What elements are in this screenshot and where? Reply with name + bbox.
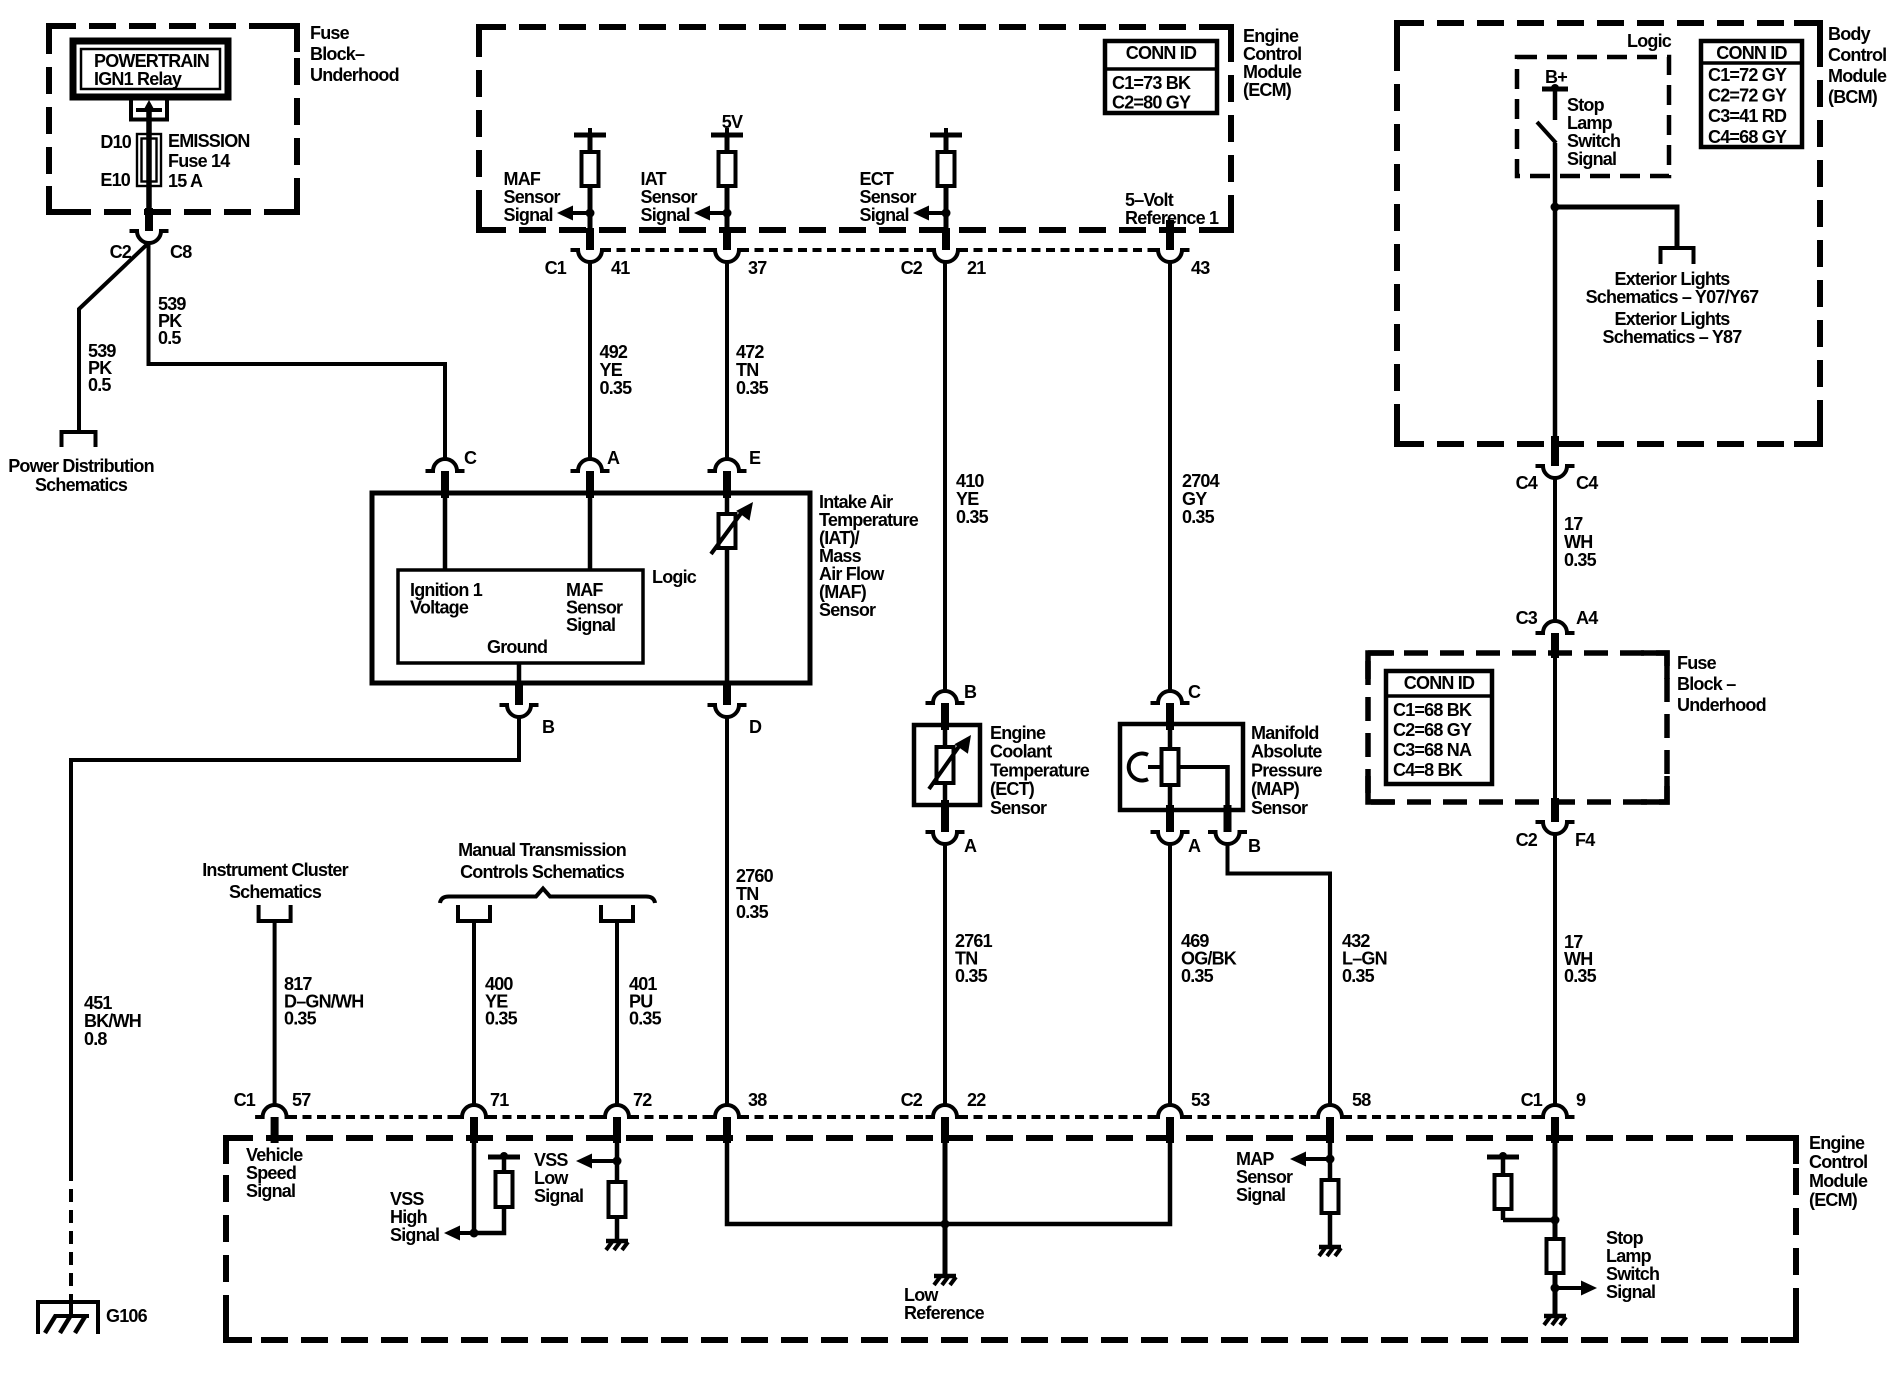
connector C1 pin 9 [1536,1105,1575,1117]
wire 817 D-GN/WH 0.35 [273,921,277,1105]
svg-text:High: High [390,1207,427,1227]
svg-text:E: E [749,448,761,468]
arrow VSS low signal [590,1159,617,1163]
svg-text:0.35: 0.35 [1564,966,1597,986]
svg-text:YE: YE [600,360,623,380]
terminal bar stop lamp pull-up [1487,1155,1519,1160]
svg-text:38: 38 [748,1090,767,1110]
ground G106 symbol [38,1302,98,1334]
svg-text:(MAP): (MAP) [1251,779,1300,799]
wire 432 L-GN 0.35 (B to 58) [1228,844,1331,1105]
arrow IAT sensor signal [708,211,727,215]
svg-text:IAT: IAT [641,169,667,189]
svg-text:Schematics: Schematics [229,882,322,902]
svg-text:Switch: Switch [1606,1264,1659,1284]
wire 492 YE 0.35 [588,262,592,459]
fuse F14 symbol [137,134,161,186]
svg-text:0.8: 0.8 [84,1029,107,1049]
svg-text:Control: Control [1828,45,1886,65]
svg-text:72: 72 [633,1090,652,1110]
MAP signal wire inside box [1168,724,1173,749]
svg-text:TN: TN [736,360,758,380]
svg-text:Temperature: Temperature [819,510,919,530]
pull-up resistor MAF [588,135,593,152]
wire 2704 GY 0.35 [1168,262,1172,691]
wire 451 BK/WH 0.8 (B to G106) [71,717,519,1168]
svg-text:Engine: Engine [1243,26,1299,46]
svg-text:Schematics: Schematics [35,475,128,495]
connector pin C (MAF sensor) [426,459,465,471]
svg-text:A4: A4 [1576,608,1598,628]
connector pin 72 [598,1105,637,1117]
svg-text:C2: C2 [901,1090,923,1110]
svg-text:451: 451 [84,993,112,1013]
wire 17 WH 0.35 (lower) [1553,834,1557,1105]
CONN ID table (fuse block) [1386,671,1492,784]
svg-text:Signal: Signal [1236,1185,1285,1205]
svg-text:Block –: Block – [1677,674,1736,694]
resistor VSS low [609,1182,626,1217]
svg-text:Low: Low [534,1168,569,1188]
svg-text:Fuse: Fuse [310,23,350,43]
off-page bracket manual transmission (left) [458,905,490,921]
junction node stop lamp signal [1551,1284,1560,1293]
svg-text:Logic: Logic [1627,31,1672,51]
svg-text:Underhood: Underhood [310,65,399,85]
svg-text:A: A [607,448,620,468]
variable resistor ECT (thermistor) [937,747,954,783]
svg-text:Module: Module [1828,66,1887,86]
svg-text:C: C [464,448,477,468]
stop lamp pull-up branch [1503,1218,1555,1223]
svg-text:Block–: Block– [310,44,365,64]
svg-text:Signal: Signal [1567,149,1616,169]
junction node IAT signal [723,209,732,218]
svg-text:C4: C4 [1576,473,1598,493]
svg-text:Vehicle: Vehicle [246,1145,303,1165]
arrow stop lamp switch signal [1555,1286,1583,1290]
svg-text:57: 57 [292,1090,311,1110]
svg-text:B: B [542,717,555,737]
wire 400 YE 0.35 [472,921,476,1105]
svg-text:Pressure: Pressure [1251,760,1322,780]
stub below fuse box [145,208,153,231]
svg-text:0.35: 0.35 [736,902,769,922]
junction node MAF signal [586,209,595,218]
svg-text:Signal: Signal [641,205,690,225]
svg-text:C2: C2 [1516,830,1538,850]
svg-text:0.35: 0.35 [955,966,988,986]
svg-text:22: 22 [967,1090,986,1110]
off-page bracket power distribution [62,432,96,447]
stub at ECM top box edge x=727 [723,228,731,250]
svg-text:C4: C4 [1516,473,1538,493]
svg-text:A: A [1188,836,1201,856]
engine control module (bottom) dashed box [226,1138,1796,1340]
svg-text:Temperature: Temperature [990,760,1090,780]
svg-text:Switch: Switch [1567,131,1620,151]
svg-text:Low: Low [904,1285,939,1305]
body control module dashed box [1397,23,1820,444]
svg-text:0.35: 0.35 [956,507,989,527]
connector C1 pin 41 [571,250,610,262]
connector pin 71 [455,1105,494,1117]
svg-text:0.35: 0.35 [600,378,633,398]
svg-text:MAP: MAP [1236,1149,1274,1169]
arrow MAF sensor signal [571,211,590,215]
svg-text:Exterior Lights: Exterior Lights [1614,309,1730,329]
CONN ID table (ECM top) [1105,41,1217,113]
svg-text:Reference: Reference [904,1303,985,1323]
connector pin A (ECT) [926,832,965,844]
relay K: POWERTRAIN IGN1 Relay box [73,41,228,97]
stub pin B (MAP) [1224,805,1232,832]
connector C2/C8 arc [130,231,169,243]
variable resistor IAT (thermistor) [719,514,736,548]
junction node low reference [941,1220,950,1229]
svg-text:C2=68 GY: C2=68 GY [1393,720,1472,740]
svg-text:C1: C1 [545,258,567,278]
supply T-bar above ECT pull-up [930,133,962,138]
VSS high pull-up branch [474,1207,504,1233]
svg-text:Voltage: Voltage [410,598,469,618]
off-page bracket manual transmission (right) [601,905,633,921]
MAP transducer symbol [1129,754,1148,781]
svg-text:Ground: Ground [487,637,547,657]
svg-text:Control: Control [1243,44,1301,64]
svg-text:71: 71 [490,1090,509,1110]
svg-text:Fuse 14: Fuse 14 [168,151,230,171]
wire VSS low inside ECM [615,1143,620,1182]
ground low reference [934,1274,956,1279]
svg-text:C1: C1 [1521,1090,1543,1110]
svg-text:0.5: 0.5 [88,375,111,395]
svg-text:Manual Transmission: Manual Transmission [458,840,626,860]
svg-text:G106: G106 [106,1306,148,1326]
svg-text:Engine: Engine [990,723,1046,743]
stub pin B [515,683,523,705]
pull-up resistor IAT [725,135,730,152]
connector pin 58 [1311,1105,1350,1117]
svg-text:Power Distribution: Power Distribution [8,456,154,476]
svg-text:0.35: 0.35 [1181,966,1214,986]
arrow VSS high signal [458,1231,474,1235]
svg-text:0.35: 0.35 [1182,507,1215,527]
junction node MAP signal [1326,1155,1335,1164]
ECT sensor box [914,725,980,805]
inner logic dashed box (BCM) [1517,57,1669,176]
connector C2/F4 [1536,822,1575,834]
resistor stop lamp pull-up [1495,1175,1512,1209]
stub BCM bottom C4 [1551,436,1559,466]
svg-text:Instrument Cluster: Instrument Cluster [202,860,348,880]
relay output pin cup symbol [131,101,167,120]
thermistor ECT wires [943,725,948,749]
ground VSS low [606,1239,628,1244]
wire 2761 TN 0.35 [943,844,947,1105]
svg-text:0.35: 0.35 [629,1009,662,1029]
svg-text:Sensor: Sensor [860,187,917,207]
svg-text:0.35: 0.35 [1342,966,1375,986]
pull-up resistor ECT [944,135,949,152]
svg-text:Manifold: Manifold [1251,723,1319,743]
svg-text:Sensor: Sensor [1251,798,1308,818]
junction node ECT signal [942,209,951,218]
connector pin A (MAP) [1151,832,1190,844]
svg-text:Signal: Signal [566,615,615,635]
connector pin 53 [1151,1105,1190,1117]
connector C2 pin 22 [926,1105,965,1117]
svg-text:Controls Schematics: Controls Schematics [460,862,625,882]
MAP sensor box [1120,724,1243,810]
svg-text:Schematics – Y87: Schematics – Y87 [1603,327,1743,347]
wire 401 PU 0.35 [615,921,619,1105]
stop lamp switch SW [1537,122,1556,143]
svg-text:Coolant: Coolant [990,742,1052,762]
svg-text:C3: C3 [1516,608,1538,628]
svg-text:B: B [1248,836,1261,856]
connector C2 pin 21 [927,250,966,262]
svg-text:POWERTRAIN: POWERTRAIN [94,51,209,71]
svg-text:Logic: Logic [652,567,697,587]
wire stop lamp inside ECM [1553,1143,1558,1316]
svg-text:Stop: Stop [1567,95,1605,115]
svg-text:58: 58 [1352,1090,1371,1110]
wire 2760 TN 0.35 (D to 38) [725,717,729,1105]
inner logic box (MAF sensor) [398,570,643,663]
wire 539 PK 0.5 to MAF sensor pin C [149,243,446,459]
svg-text:C8: C8 [170,242,192,262]
resistor stop lamp series [1547,1239,1564,1273]
svg-text:Sensor: Sensor [1236,1167,1293,1187]
dotted connector line (bottom row) [288,1115,462,1119]
stub at ECM top box edge x=946 [942,228,950,250]
svg-text:F4: F4 [1575,830,1595,850]
svg-text:0.35: 0.35 [485,1009,518,1029]
svg-text:IGN1 Relay: IGN1 Relay [94,69,182,89]
svg-text:53: 53 [1191,1090,1210,1110]
svg-text:Exterior Lights: Exterior Lights [1614,269,1730,289]
svg-text:Signal: Signal [246,1181,295,1201]
svg-text:Speed: Speed [246,1163,296,1183]
svg-text:472: 472 [736,342,764,362]
wire ground pin B [517,663,522,683]
svg-text:C2: C2 [901,258,923,278]
svg-text:EMISSION: EMISSION [168,131,250,151]
svg-text:C2=80 GY: C2=80 GY [1112,93,1191,113]
svg-text:410: 410 [956,471,984,491]
svg-text:37: 37 [748,258,767,278]
junction node stop lamp pull-up [1551,1216,1560,1225]
junction node exterior lights [1551,203,1560,212]
svg-text:0.35: 0.35 [284,1009,317,1029]
svg-text:C1=68 BK: C1=68 BK [1393,700,1472,720]
svg-text:TN: TN [736,884,758,904]
svg-text:C4=8 BK: C4=8 BK [1393,760,1463,780]
connector pin B (MAF sensor) [500,705,539,717]
svg-text:0.35: 0.35 [736,378,769,398]
svg-text:BK/WH: BK/WH [84,1011,141,1031]
svg-text:2704: 2704 [1182,471,1220,491]
svg-text:5–Volt: 5–Volt [1125,190,1174,210]
arrow MAP sensor signal [1304,1157,1330,1161]
svg-text:Signal: Signal [860,205,909,225]
svg-text:YE: YE [956,489,979,509]
wire VSS high inside ECM [472,1143,477,1233]
svg-text:5V: 5V [722,112,743,132]
arrow ECT sensor signal [927,211,946,215]
svg-text:Lamp: Lamp [1567,113,1613,133]
connector pin D (MAF sensor) [708,705,747,717]
svg-text:C3=68 NA: C3=68 NA [1393,740,1472,760]
wire switch to BCM bottom [1553,143,1558,444]
svg-text:21: 21 [967,258,986,278]
junction node VSS low [613,1157,622,1166]
connector pin B (MAP) [1208,832,1247,844]
wire MAP resistor to ground [1328,1213,1333,1246]
svg-text:Control: Control [1809,1152,1867,1172]
ground MAP [1319,1245,1341,1250]
svg-text:(BCM): (BCM) [1828,87,1878,107]
junction node VSS high [470,1229,479,1238]
svg-text:C2: C2 [110,242,132,262]
svg-text:ECT: ECT [860,169,894,189]
svg-text:Sensor: Sensor [641,187,698,207]
svg-text:VSS: VSS [534,1150,568,1170]
svg-text:Engine: Engine [1809,1133,1865,1153]
wire relay to fuse [146,108,152,212]
svg-text:CONN ID: CONN ID [1404,673,1475,693]
off-page bracket instrument cluster [259,905,291,921]
connector pin 38 [708,1105,747,1117]
svg-text:2760: 2760 [736,866,774,886]
svg-text:Lamp: Lamp [1606,1246,1652,1266]
svg-text:Sensor: Sensor [504,187,561,207]
svg-text:Intake Air: Intake Air [819,492,893,512]
wire resistor to ground (VSS low) [615,1217,620,1240]
svg-text:B+: B+ [1545,67,1567,87]
svg-text:Signal: Signal [390,1225,439,1245]
svg-text:15 A: 15 A [168,171,203,191]
svg-text:(MAF): (MAF) [819,582,867,602]
connector C3/A4 [1536,621,1575,633]
resistor VSS high [496,1172,513,1207]
svg-text:(ECM): (ECM) [1809,1190,1858,1210]
svg-text:C1: C1 [234,1090,256,1110]
svg-text:C4=68 GY: C4=68 GY [1708,127,1787,147]
connector pin A (MAF sensor) [571,459,610,471]
stub pin D [723,683,731,705]
CONN ID table (BCM) [1701,41,1802,147]
stub at ECM top box edge x=590 [586,228,594,250]
resistor MAP pull [1322,1180,1339,1213]
svg-text:MAF: MAF [504,169,541,189]
svg-text:492: 492 [600,342,628,362]
svg-text:(ECM): (ECM) [1243,80,1292,100]
svg-text:C2=72 GY: C2=72 GY [1708,86,1787,106]
svg-text:41: 41 [611,258,630,278]
wire through fuse block [1553,652,1557,802]
connector pin C (MAP) [1151,691,1190,703]
svg-text:CONN ID: CONN ID [1716,43,1787,63]
stub pin A (MAP) [1166,805,1174,832]
wire 410 YE 0.35 [943,262,947,691]
svg-text:0.5: 0.5 [158,328,181,348]
svg-text:Underhood: Underhood [1677,695,1766,715]
connector pin B (ECT) [926,691,965,703]
connector C4/C4 [1536,466,1575,478]
wire B+ to switch [1553,89,1558,120]
svg-text:9: 9 [1576,1090,1586,1110]
wire ignition 1 voltage into logic [443,493,448,570]
svg-text:Schematics – Y07/Y67: Schematics – Y07/Y67 [1586,287,1760,307]
wire MAF sensor signal into logic [588,493,593,570]
stub 5-volt ref inside box [1166,220,1174,250]
engine control module (top) dashed box [479,27,1231,230]
svg-text:C1=73 BK: C1=73 BK [1112,73,1191,93]
svg-text:B: B [964,682,977,702]
connector C1 pin 57 [255,1105,294,1117]
wire 539 PK to power distribution (diagonal) [79,243,149,432]
svg-text:0.35: 0.35 [1564,550,1597,570]
connector pin 43 [1151,250,1190,262]
svg-text:GY: GY [1182,489,1207,509]
svg-text:Sensor: Sensor [990,798,1047,818]
thermistor IAT wire [725,493,730,516]
svg-text:A: A [964,836,977,856]
svg-text:E10: E10 [100,170,130,190]
connector pin 37 [708,250,747,262]
svg-text:Air Flow: Air Flow [819,564,885,584]
svg-text:Signal: Signal [1606,1282,1655,1302]
svg-text:C3=41 RD: C3=41 RD [1708,106,1787,126]
fuse block underhood (right) dashed box [1368,653,1667,802]
svg-text:CONN ID: CONN ID [1126,43,1197,63]
wire 22 to ground [943,1143,948,1275]
terminal bar VSS high [488,1155,520,1160]
svg-text:Sensor: Sensor [819,600,876,620]
wire MAP signal inside ECM [1328,1143,1333,1180]
wire low reference bus [727,1143,1170,1224]
svg-text:Module: Module [1243,62,1302,82]
fuse block underhood (top-left) dashed box [49,26,297,212]
supply T-bar above MAF pull-up [574,133,606,138]
stub pin A (ECT) [941,800,949,832]
svg-text:C: C [1188,682,1201,702]
svg-text:17: 17 [1564,514,1583,534]
stub fuse block bottom [1551,798,1559,822]
svg-text:D10: D10 [100,132,131,152]
dotted connector line (top row) [602,248,714,252]
curly brace manual transmission [440,889,655,904]
svg-text:Signal: Signal [534,1186,583,1206]
ground stop lamp [1544,1314,1566,1319]
B+ terminal bar [1542,87,1568,92]
svg-text:Stop: Stop [1606,1228,1644,1248]
wire branch to exterior lights [1555,207,1677,249]
wire 469 OG/BK 0.35 [1168,844,1172,1105]
svg-text:43: 43 [1191,258,1210,278]
connector pin E (MAF sensor) [708,459,747,471]
svg-text:WH: WH [1564,532,1592,552]
svg-text:Mass: Mass [819,546,862,566]
svg-text:Absolute: Absolute [1251,742,1322,762]
wire 472 TN 0.35 [725,262,729,459]
wire 451 dashed segment [69,1168,73,1299]
wire 17 WH 0.35 (upper) [1553,478,1557,621]
svg-text:D: D [749,717,762,737]
svg-text:C1=72 GY: C1=72 GY [1708,65,1787,85]
